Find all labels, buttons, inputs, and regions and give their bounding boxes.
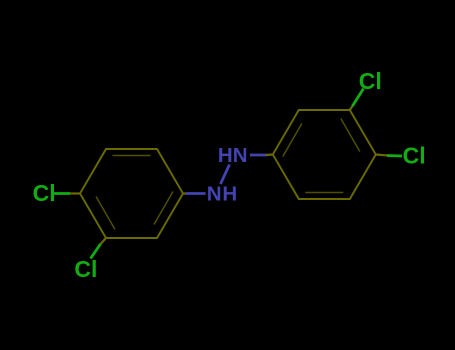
wire ring2 outline	[273, 110, 376, 199]
bond N-C1' (olive stub)	[266, 153, 273, 156]
bond C3-Cl bottom (green half)	[91, 244, 101, 259]
bond N-C1' (blue half)	[250, 154, 267, 157]
bond C1-N (olive stub)	[183, 192, 187, 194]
svg-text:H: H	[218, 144, 233, 167]
svg-text:N: N	[207, 183, 222, 206]
benzene ring left (3,4-dichlorophenyl)	[80, 149, 183, 238]
svg-text:Cl: Cl	[74, 256, 97, 282]
wire ring1 inner double bonds	[113, 155, 151, 157]
svg-text:Cl: Cl	[403, 143, 426, 169]
svg-text:N: N	[233, 144, 248, 167]
bond C3'-Cl top (green half)	[353, 89, 364, 107]
bond C4'-Cl right (green half)	[387, 154, 402, 157]
bond C4-Cl left (olive stub)	[68, 192, 80, 194]
bond C3'-Cl top (olive stub)	[350, 105, 354, 111]
bond C4'-Cl right (olive stub)	[376, 155, 388, 156]
svg-text:Cl: Cl	[359, 68, 382, 94]
svg-text:H: H	[222, 183, 237, 206]
wire ring2 inner double bonds	[305, 192, 343, 194]
benzene ring right (3,4-dichlorophenyl)	[273, 110, 376, 199]
bond C3-Cl bottom (olive stub)	[100, 238, 107, 245]
bond C1-N (blue half)	[186, 192, 206, 195]
bond C4-Cl left (green half)	[52, 192, 70, 195]
wire ring1 outline	[80, 149, 183, 238]
svg-text:Cl: Cl	[33, 180, 56, 206]
bond N-N hydrazine	[221, 165, 230, 185]
